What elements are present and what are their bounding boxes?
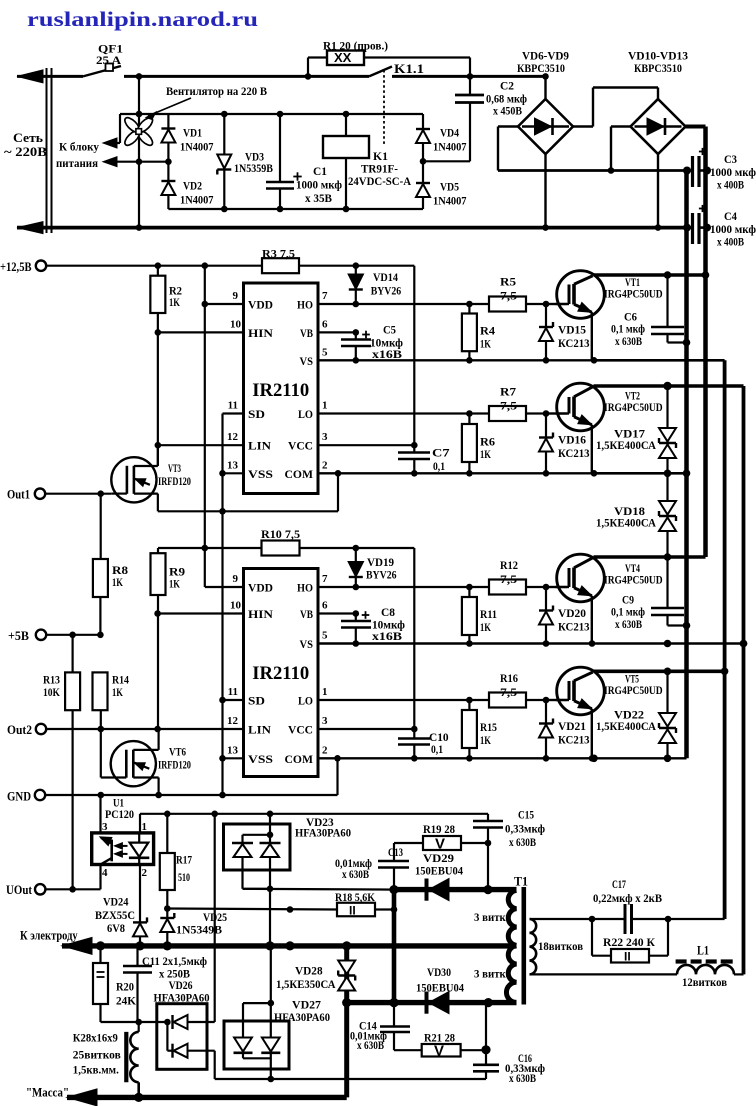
svg-text:Сеть: Сеть [13,131,43,145]
svg-text:VCC: VCC [288,441,313,453]
svg-text:0,1: 0,1 [431,742,443,756]
svg-text:VS: VS [300,639,314,651]
svg-text:C1: C1 [313,164,327,178]
svg-text:VD24: VD24 [103,895,129,909]
svg-text:7: 7 [322,573,328,585]
svg-text:R21 28: R21 28 [424,1031,455,1045]
svg-text:R12: R12 [500,558,518,572]
svg-text:x 630В: x 630В [615,617,642,631]
svg-text:SD: SD [248,409,265,421]
svg-text:VD20: VD20 [558,606,586,620]
svg-text:R19 28: R19 28 [423,822,455,836]
svg-text:7: 7 [322,290,328,302]
svg-text:1000 мкф: 1000 мкф [296,178,342,192]
svg-text:10: 10 [230,600,242,612]
svg-text:1,5КЕ350СА: 1,5КЕ350СА [276,977,336,991]
svg-text:x 630В: x 630В [509,837,536,849]
svg-text:1N4007: 1N4007 [433,140,467,154]
svg-text:SD: SD [248,696,265,708]
svg-text:HFA30PA60: HFA30PA60 [274,1012,330,1024]
svg-text:1: 1 [322,686,328,698]
svg-text:VB: VB [300,328,313,340]
svg-text:4: 4 [102,867,108,879]
svg-text:VD1: VD1 [183,126,202,140]
svg-text:VD14: VD14 [373,270,398,284]
svg-text:1,5КЕ400СА: 1,5КЕ400СА [596,438,656,452]
svg-text:C13: C13 [388,845,403,859]
svg-text:HIN: HIN [248,609,274,621]
svg-text:питания: питания [56,156,98,170]
svg-text:1,5КЕ400СА: 1,5КЕ400СА [596,719,656,733]
svg-text:5: 5 [322,346,328,358]
svg-text:13: 13 [227,459,239,471]
svg-text:VD4: VD4 [440,126,459,140]
svg-text:C2: C2 [500,79,514,93]
svg-text:1N5359B: 1N5359B [234,161,273,175]
svg-text:x 630В: x 630В [615,334,642,348]
svg-text:x16В: x16В [372,349,402,361]
svg-text:C7: C7 [432,446,450,460]
svg-text:LIN: LIN [248,441,272,453]
svg-text:Out1: Out1 [7,488,30,502]
svg-text:VB: VB [300,609,313,621]
svg-text:VD28: VD28 [295,964,323,978]
svg-text:VT6: VT6 [169,745,186,759]
svg-text:3 витка: 3 витка [474,967,511,981]
svg-text:10: 10 [230,318,242,330]
svg-text:12витков: 12витков [682,977,727,989]
svg-text:10мкф: 10мкф [370,338,403,350]
svg-text:GND: GND [7,790,31,804]
svg-text:R4: R4 [480,324,495,338]
svg-text:VD30: VD30 [427,965,451,979]
svg-text:V: V [435,836,445,853]
svg-text:0,22мкф x 2кВ: 0,22мкф x 2кВ [593,891,662,905]
svg-text:x 450В: x 450В [493,104,522,118]
svg-text:IRG4PC50UD: IRG4PC50UD [604,287,663,301]
svg-text:1K: 1K [480,337,491,351]
svg-text:L1: L1 [697,944,709,958]
svg-text:LIN: LIN [248,725,272,737]
svg-text:11: 11 [228,686,238,698]
svg-text:R18 5,6K: R18 5,6K [335,890,376,904]
svg-text:~ 220В: ~ 220В [4,145,47,159]
svg-text:"Масса": "Масса" [26,1086,69,1100]
svg-text:V: V [434,1043,444,1060]
svg-text:КС213: КС213 [558,336,590,350]
svg-text:x16В: x16В [372,631,402,643]
svg-text:ruslanlipin.narod.ru: ruslanlipin.narod.ru [27,7,258,31]
svg-text:25витков: 25витков [73,1049,121,1061]
svg-text:HO: HO [297,300,313,312]
svg-text:6: 6 [322,600,328,612]
svg-text:R15: R15 [480,720,497,734]
svg-text:VDD: VDD [248,300,273,312]
svg-text:150EBU04: 150EBU04 [415,864,463,878]
svg-text:25 A: 25 A [96,53,121,67]
svg-text:КС213: КС213 [558,733,590,747]
svg-text:К электроду: К электроду [20,929,78,943]
svg-text:VCC: VCC [288,725,313,737]
svg-text:UOut: UOut [6,883,33,897]
svg-text:C11 2х1,5мкф: C11 2х1,5мкф [142,956,207,968]
svg-text:VSS: VSS [248,754,273,766]
svg-text:VD27: VD27 [292,998,321,1012]
svg-text:10K: 10K [43,685,61,699]
svg-text:R1 20 (пров.): R1 20 (пров.) [323,39,388,53]
svg-text:IR2110: IR2110 [252,380,309,401]
svg-text:1,5КЕ400СА: 1,5КЕ400СА [596,516,656,530]
svg-text:C17: C17 [612,877,626,891]
svg-text:COM: COM [285,754,314,766]
svg-text:7,5: 7,5 [500,289,517,303]
svg-text:КВРС3510: КВРС3510 [517,61,565,75]
svg-text:3 витка: 3 витка [474,910,511,924]
svg-text:IR2110: IR2110 [252,663,309,684]
svg-text:C15: C15 [518,808,534,822]
svg-text:C3: C3 [724,152,737,166]
svg-text:1K: 1K [480,447,491,461]
svg-text:IRG4PC50UD: IRG4PC50UD [604,400,663,414]
svg-text:C4: C4 [724,209,737,223]
svg-text:6: 6 [322,318,328,330]
svg-text:5: 5 [322,630,328,642]
svg-text:9: 9 [233,290,239,302]
svg-text:КВРС3510: КВРС3510 [634,61,682,75]
svg-text:R5: R5 [500,275,516,289]
svg-text:x 35В: x 35В [305,191,332,205]
svg-text:II: II [349,904,356,918]
svg-text:BYV26: BYV26 [371,284,402,298]
svg-text:VS: VS [300,356,314,368]
svg-text:6V8: 6V8 [107,921,125,935]
svg-text:11: 11 [228,400,238,412]
svg-text:1,5кв.мм.: 1,5кв.мм. [73,1065,119,1077]
svg-text:КС213: КС213 [558,446,590,460]
svg-text:VD15: VD15 [558,323,586,337]
svg-text:LO: LO [298,409,313,421]
svg-text:3: 3 [322,715,328,727]
svg-text:+12,5В: +12,5В [0,260,32,274]
svg-text:КС213: КС213 [558,620,590,634]
svg-text:Вентилятор на 220 В: Вентилятор на 220 В [166,84,267,98]
svg-text:3: 3 [322,431,328,443]
svg-text:IRG4PC50UD: IRG4PC50UD [604,573,663,587]
svg-text:0,33мкф: 0,33мкф [505,824,545,836]
svg-text:24K: 24K [116,994,137,1008]
svg-text:x 630В: x 630В [509,1073,536,1085]
svg-text:9: 9 [233,573,239,585]
svg-text:R20: R20 [116,980,134,994]
svg-text:II: II [624,950,631,964]
svg-text:К блоку: К блоку [59,140,99,154]
svg-text:R7: R7 [500,385,516,399]
svg-text:1N4007: 1N4007 [180,193,214,207]
svg-text:BZX55C: BZX55C [95,908,135,922]
svg-text:VDD: VDD [248,583,273,595]
svg-text:0,1: 0,1 [433,459,445,473]
svg-text:1K: 1K [112,575,123,589]
svg-text:VD21: VD21 [558,719,586,733]
svg-text:HFA30PA60: HFA30PA60 [154,993,210,1005]
svg-text:HO: HO [297,583,313,595]
svg-text:К28х16х9: К28х16х9 [73,1033,118,1045]
svg-text:VD2: VD2 [183,179,202,193]
svg-text:+5В: +5В [8,629,29,643]
svg-text:R22 240 К: R22 240 К [603,935,655,949]
svg-text:R16: R16 [500,671,518,685]
svg-text:HFA30PA60: HFA30PA60 [295,828,351,840]
svg-text:BYV26: BYV26 [366,568,397,582]
svg-text:K1.1: K1.1 [394,62,424,76]
svg-text:R17: R17 [176,853,192,867]
svg-text:VT3: VT3 [168,461,181,475]
svg-text:1N4007: 1N4007 [433,194,467,208]
svg-text:x 630В: x 630В [357,1040,384,1052]
svg-text:7,5: 7,5 [500,572,517,586]
svg-text:VD16: VD16 [558,433,586,447]
svg-text:C5: C5 [383,323,396,337]
svg-text:COM: COM [285,469,314,481]
svg-text:IRFD120: IRFD120 [158,476,191,488]
svg-text:1K: 1K [169,577,180,591]
svg-text:10мкф: 10мкф [372,620,405,632]
svg-text:1K: 1K [480,620,491,634]
svg-text:x 400В: x 400В [717,178,744,192]
svg-text:150EBU04: 150EBU04 [416,981,464,995]
svg-text:Out2: Out2 [7,723,32,737]
svg-text:2: 2 [322,459,328,471]
svg-text:VD5: VD5 [440,180,459,194]
svg-text:R10 7,5: R10 7,5 [261,527,300,541]
svg-text:HIN: HIN [248,328,274,340]
svg-text:7,5: 7,5 [500,399,517,413]
svg-text:C8: C8 [381,605,395,619]
svg-text:x 400В: x 400В [717,235,744,249]
svg-text:R11: R11 [480,607,497,621]
svg-text:2: 2 [322,744,328,756]
svg-text:3: 3 [102,821,108,833]
svg-text:18витков: 18витков [538,939,583,953]
svg-text:24VDC-SC-A: 24VDC-SC-A [348,174,411,188]
svg-text:12: 12 [227,715,239,727]
svg-text:7,5: 7,5 [500,685,517,699]
svg-text:PC120: PC120 [105,807,134,821]
svg-text:LO: LO [298,696,313,708]
svg-text:12: 12 [227,431,239,443]
svg-text:R3 7,5: R3 7,5 [262,247,295,261]
svg-text:1: 1 [322,400,328,412]
svg-text:x 630В: x 630В [342,869,369,881]
svg-text:IRFD120: IRFD120 [158,760,191,772]
svg-text:1K: 1K [169,295,180,309]
svg-text:1K: 1K [480,733,491,747]
svg-text:2: 2 [142,867,148,879]
svg-text:1N4007: 1N4007 [180,140,214,154]
svg-text:VD26: VD26 [169,978,193,992]
svg-text:1: 1 [142,821,148,833]
svg-text:T1: T1 [514,875,528,889]
svg-text:VSS: VSS [248,469,273,481]
svg-text:13: 13 [227,744,239,756]
svg-text:510: 510 [178,870,190,884]
svg-text:1K: 1K [112,685,123,699]
svg-text:IRG4PC50UD: IRG4PC50UD [604,683,663,697]
